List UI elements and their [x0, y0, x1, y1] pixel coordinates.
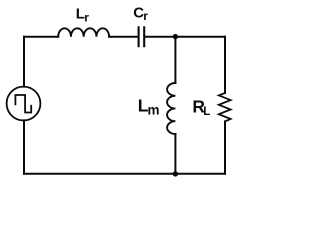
label L_m [138, 96, 160, 118]
capacitor C_r [139, 27, 145, 46]
svg-text:r: r [143, 9, 148, 23]
wire right vertical lower [224, 121, 226, 173]
resistor R_L [219, 93, 231, 121]
wire bottom [24, 173, 225, 175]
label L_r [76, 5, 89, 24]
inductor L_m [167, 83, 175, 134]
label C_r [133, 5, 148, 23]
node junction top [173, 34, 178, 39]
wire capacitor to top-right corner [145, 36, 225, 38]
wire middle branch lower [174, 134, 176, 174]
inductor L_r [58, 28, 109, 36]
wire left vertical upper [23, 37, 25, 87]
source square-wave symbol [15, 95, 31, 113]
wire top-left segment [24, 36, 58, 38]
svg-text:L: L [203, 106, 210, 118]
wire left vertical lower [23, 120, 25, 173]
wire right vertical upper [224, 37, 226, 93]
svg-text:m: m [148, 102, 160, 117]
source V1 circle [7, 87, 41, 121]
node junction bottom [173, 171, 178, 176]
label R_L [192, 96, 210, 117]
wire middle branch upper [174, 37, 176, 83]
wire inductor to capacitor [109, 36, 137, 38]
svg-text:r: r [84, 10, 89, 24]
